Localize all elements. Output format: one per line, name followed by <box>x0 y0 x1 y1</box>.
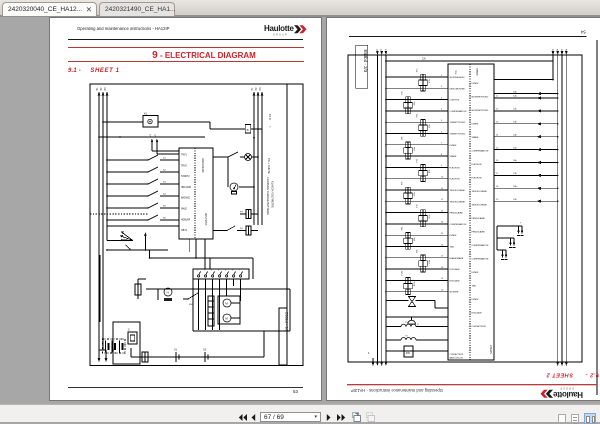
wire right row 8 <box>494 187 558 189</box>
wire <box>212 279 214 330</box>
svg-text:4: 4 <box>218 270 220 272</box>
svg-text:11: 11 <box>496 96 499 98</box>
svg-text:COUPURE CHARGE BATTERIE: COUPURE CHARGE BATTERIE <box>266 177 270 215</box>
svg-text:17: 17 <box>496 173 499 175</box>
svg-text:ETAMIN: ETAMIN <box>489 345 492 354</box>
svg-text:1: 1 <box>197 270 199 272</box>
svg-text:DVMIN: DVMIN <box>472 272 479 274</box>
svg-text:PO + CHUTE: PO + CHUTE <box>267 158 271 174</box>
wire <box>219 279 221 330</box>
svg-text:6: 6 <box>232 270 234 272</box>
sheet label E53bd-2/3 <box>356 45 368 88</box>
svg-text:SPARE: SPARE <box>472 136 480 139</box>
continuous layout icon <box>571 414 579 423</box>
relay K7b <box>419 216 427 221</box>
coil Y1 <box>386 326 401 328</box>
fuse F4b <box>406 142 410 148</box>
red rule (rotated) <box>347 384 597 385</box>
wire right bus 3 <box>561 55 563 362</box>
switch S8 <box>183 298 188 300</box>
svg-text:GB72: GB72 <box>181 230 188 232</box>
svg-text:6: 6 <box>441 131 443 133</box>
svg-text:TRV1: TRV1 <box>181 155 188 157</box>
wire mid rail <box>146 288 290 290</box>
wire <box>205 279 207 330</box>
svg-text:TMIL: TMIL <box>472 286 478 288</box>
svg-text:8: 8 <box>441 154 443 156</box>
svg-text:DVMIN: DVMIN <box>450 145 457 147</box>
wire left row 3 <box>386 99 448 101</box>
svg-text:VARIATEUR: VARIATEUR <box>201 158 205 173</box>
svg-text:14: 14 <box>441 222 444 224</box>
wire right row 6 <box>494 162 558 164</box>
svg-text:BLANKSPARE: BLANKSPARE <box>450 257 464 260</box>
wire left row 13 <box>386 212 448 214</box>
svg-text:MONTEE/TRONC: MONTEE/TRONC <box>472 97 489 99</box>
wire left bus 1 <box>98 95 100 350</box>
svg-text:K5b: K5b <box>429 169 431 173</box>
footer rule + page number <box>68 387 303 388</box>
terminal arrows T1 <box>497 225 522 227</box>
svg-text:S4: S4 <box>163 194 166 196</box>
fuse F2b <box>406 97 410 103</box>
svg-text:P2: P2 <box>255 87 258 91</box>
relay K6b <box>404 193 412 198</box>
wire tie2 <box>494 79 553 81</box>
svg-text:DVMIN: DVMIN <box>472 124 479 126</box>
node arrow up <box>144 236 146 250</box>
sheet edge line <box>596 40 598 395</box>
relay K2b <box>404 103 412 108</box>
svg-text:C6b: C6b <box>513 160 518 162</box>
wire left row 6 <box>386 133 448 135</box>
Haulotte logo <box>264 24 306 36</box>
wire left bus 1 <box>376 55 378 362</box>
wire left row 10 <box>386 178 448 180</box>
svg-text:S6: S6 <box>163 218 166 220</box>
svg-text:MONTEE: MONTEE <box>450 292 460 294</box>
buzzer row <box>386 316 448 318</box>
wire <box>130 348 132 357</box>
wire bottom rail 1 <box>107 249 168 251</box>
single page layout icon <box>558 414 566 423</box>
svg-text:F4b: F4b <box>402 135 404 139</box>
svg-text:1: 1 <box>368 351 370 355</box>
svg-text:DESC/MONTEE: DESC/MONTEE <box>450 88 466 90</box>
wire right bus 1 <box>552 55 554 61</box>
wire left row 9 <box>386 166 448 168</box>
wire <box>158 121 210 123</box>
first page button <box>238 414 247 421</box>
switch S4 <box>107 195 148 197</box>
battery bank box <box>113 322 140 364</box>
valve bowtie row <box>386 300 409 302</box>
svg-text:E53bd - 2/3: E53bd - 2/3 <box>363 50 368 73</box>
svg-text:9: 9 <box>441 165 443 167</box>
svg-text:PENDULAIRE: PENDULAIRE <box>450 212 464 215</box>
two-page layout icon (selected) <box>584 413 596 424</box>
svg-text:FLECHON: FLECHON <box>450 179 460 181</box>
svg-text:C1b: C1b <box>513 96 518 98</box>
fuse F10b <box>406 278 410 284</box>
coil Y2 <box>386 339 401 341</box>
relay K5b <box>419 170 427 175</box>
wire left row 5 <box>386 121 448 123</box>
switch S9 <box>126 245 131 250</box>
svg-text:F4: F4 <box>240 228 243 230</box>
wire <box>251 128 262 130</box>
svg-text:3: 3 <box>211 270 213 272</box>
svg-text:B: B <box>247 128 249 132</box>
svg-text:S1: S1 <box>163 158 166 160</box>
bottom toolbar <box>0 404 600 422</box>
wire dashed <box>90 213 148 215</box>
svg-text:KLAXON VOLTMETRE: KLAXON VOLTMETRE <box>271 181 275 208</box>
svg-text:4: 4 <box>441 109 443 111</box>
svg-text:>: > <box>268 126 272 128</box>
svg-text:FLECHON: FLECHON <box>472 178 482 180</box>
fuse B <box>245 125 250 133</box>
svg-text:DVMIN: DVMIN <box>472 299 479 301</box>
wire right row 4 <box>494 136 558 138</box>
svg-text:F3: F3 <box>240 212 243 214</box>
wire right bus 1 <box>253 95 255 225</box>
fuse F4 <box>246 226 251 235</box>
svg-text:3: 3 <box>441 97 443 99</box>
relay K9b <box>419 261 427 266</box>
svg-text:TRU: TRU <box>454 70 456 75</box>
svg-text:15: 15 <box>496 147 499 149</box>
next page button <box>326 414 331 421</box>
svg-text:H: H <box>167 291 169 295</box>
svg-text:19: 19 <box>496 199 499 201</box>
svg-text:DVMIN: DVMIN <box>450 235 457 237</box>
svg-text:K9b: K9b <box>429 259 431 263</box>
svg-text:P1: P1 <box>251 87 254 91</box>
svg-text:S3: S3 <box>163 182 166 184</box>
motor M1 <box>223 299 231 307</box>
svg-text:12: 12 <box>496 109 499 111</box>
svg-text:COMPENSATION: COMPENSATION <box>450 223 467 226</box>
svg-text:TELESCOPAGE: TELESCOPAGE <box>472 190 488 193</box>
svg-text:2: 2 <box>441 86 443 88</box>
svg-text:F6b: F6b <box>402 181 404 185</box>
schematic border frame <box>90 84 303 366</box>
wire left row 11 <box>386 189 448 191</box>
svg-text:C5b: C5b <box>513 147 518 149</box>
svg-text:Q: Q <box>417 324 419 326</box>
svg-text:F10b: F10b <box>402 270 404 275</box>
svg-text:F1b: F1b <box>417 68 419 72</box>
svg-text:V1: V1 <box>150 134 152 137</box>
ground arrow <box>98 350 100 358</box>
ground arrow <box>105 350 107 358</box>
svg-text:18: 18 <box>496 186 499 188</box>
fuse F5b <box>421 165 425 171</box>
svg-text:5: 5 <box>225 270 227 272</box>
svg-text:ROULAGE: ROULAGE <box>450 268 461 271</box>
svg-text:S2: S2 <box>163 170 166 172</box>
svg-text:F2b: F2b <box>402 90 404 94</box>
wire left bus 3 <box>106 95 108 228</box>
svg-text:S: S <box>128 329 130 332</box>
fuse F7b <box>421 210 425 216</box>
battery cell 1 <box>105 341 107 353</box>
last page button <box>337 414 346 421</box>
motor box <box>218 296 240 324</box>
schematic frame <box>348 55 582 362</box>
wire right row 3 <box>494 123 558 125</box>
wire <box>233 279 235 286</box>
node arrows <box>151 142 153 148</box>
svg-text:54: 54 <box>580 30 585 35</box>
svg-text:V2: V2 <box>155 134 157 137</box>
svg-text:7: 7 <box>239 270 241 272</box>
relay K3b <box>419 125 427 130</box>
svg-text:19: 19 <box>441 278 444 280</box>
switch S1 <box>107 159 148 161</box>
wire bracket <box>99 349 106 351</box>
wire left row 15 <box>386 234 448 236</box>
svg-text:COMPENSATION: COMPENSATION <box>450 110 467 113</box>
wire row <box>107 225 179 227</box>
wire right bus 3 <box>261 95 263 225</box>
svg-text:K3b: K3b <box>429 123 431 127</box>
svg-text:K7b: K7b <box>429 214 431 218</box>
sheet label E53bd-1/3 <box>279 308 287 365</box>
inner border line <box>286 84 288 366</box>
svg-text:16: 16 <box>441 244 444 246</box>
switch S7 <box>213 156 228 158</box>
svg-text:C8b: C8b <box>513 186 518 188</box>
fuse F6 <box>142 352 148 362</box>
svg-text:K1b: K1b <box>429 78 431 82</box>
fuse F9b <box>421 255 425 261</box>
tab 2 <box>99 2 175 16</box>
wire right row 9 <box>494 200 558 202</box>
svg-text:TELESCOPAGE: TELESCOPAGE <box>450 200 466 203</box>
svg-text:TELESCOPAGE: TELESCOPAGE <box>450 189 466 192</box>
motor M2 <box>223 314 231 322</box>
wire left row 20 <box>386 291 448 293</box>
battery G1 <box>175 352 177 362</box>
svg-text:C2b: C2b <box>513 109 518 111</box>
svg-text:12: 12 <box>441 199 444 201</box>
wire right bus 2 <box>557 55 559 362</box>
wire left row 19 <box>386 279 448 281</box>
wire right bus 4 <box>565 55 567 362</box>
svg-text:COMPENSATION: COMPENSATION <box>472 150 489 153</box>
wire <box>193 330 290 332</box>
svg-text:KM1: KM1 <box>189 304 194 306</box>
wire <box>226 279 228 296</box>
wire bus3 feed <box>106 228 108 241</box>
svg-text:K4b: K4b <box>414 146 416 150</box>
svg-text:F7b: F7b <box>417 203 419 207</box>
wire top tie <box>386 60 553 62</box>
svg-text:START2: START2 <box>181 175 190 178</box>
svg-text:ROULAGE: ROULAGE <box>472 312 483 315</box>
svg-text:DAABB: DAABB <box>476 68 479 76</box>
svg-text:K10b: K10b <box>414 281 416 287</box>
svg-text:MONTEE/TRONC: MONTEE/TRONC <box>472 110 489 112</box>
svg-text:F9b: F9b <box>417 248 419 252</box>
wire right row 2 <box>494 110 558 112</box>
svg-text:Operating and maintenance inst: Operating and maintenance instructions -… <box>351 388 443 393</box>
svg-text:SPARE: SPARE <box>450 155 458 158</box>
svg-text:15: 15 <box>441 233 444 235</box>
Haulotte logo (rotated) <box>541 387 597 399</box>
subsection 9.1 <box>68 68 120 74</box>
svg-text:20: 20 <box>441 290 444 292</box>
svg-text:DN: DN <box>406 351 410 355</box>
svg-text:S5: S5 <box>163 206 166 208</box>
forward view button (disabled) <box>365 412 375 422</box>
svg-text:CONTROL: CONTROL <box>450 100 461 102</box>
section title banner <box>68 47 304 48</box>
svg-text:9.2 - SHEET 2: 9.2 - SHEET 2 <box>546 372 599 378</box>
svg-text:7: 7 <box>441 143 443 145</box>
svg-text:CONTACTEUR: CONTACTEUR <box>450 353 464 356</box>
wire <box>68 39 303 41</box>
svg-text:MOUTRHVL: MOUTRHVL <box>204 213 206 227</box>
tab bar <box>0 0 600 17</box>
wire left bus 2 <box>381 55 383 362</box>
wire left row 8 <box>386 155 448 157</box>
left page (sheet 53) <box>50 18 321 400</box>
right page (sheet 54, rotated 180) <box>327 18 600 400</box>
svg-text:RA82: RA82 <box>181 208 187 211</box>
wire left row 4 <box>386 110 448 112</box>
svg-text:COMPENSATION: COMPENSATION <box>472 244 489 247</box>
svg-text:F8b: F8b <box>402 226 404 230</box>
fuse F3 <box>246 210 251 219</box>
wire left bus 2 <box>102 95 104 350</box>
terminal arrows T3 <box>497 249 506 251</box>
svg-text:K2b: K2b <box>414 101 416 105</box>
battery G2 <box>204 352 206 362</box>
svg-text:10: 10 <box>441 177 444 179</box>
connector strip X1 <box>193 269 249 279</box>
connector block U2 <box>448 64 494 360</box>
svg-text:PENDULAIRE: PENDULAIRE <box>472 231 486 234</box>
relay K4b <box>404 148 412 153</box>
svg-text:BADV82: BADV82 <box>181 197 191 200</box>
svg-text:C4b: C4b <box>513 134 518 136</box>
battery cell 3 <box>119 341 121 353</box>
svg-text:G2: G2 <box>203 349 207 352</box>
svg-text:DVMIN: DVMIN <box>472 83 479 85</box>
wire battery rail <box>131 356 264 358</box>
fuse F6b <box>406 187 410 193</box>
fuse F1b <box>421 74 425 80</box>
svg-text:COMPENSATION: COMPENSATION <box>472 258 489 261</box>
gauge P <box>230 183 238 191</box>
svg-text:CA: CA <box>422 57 426 61</box>
svg-text:16: 16 <box>496 160 499 162</box>
page combo box <box>260 412 321 422</box>
wire right row 5 <box>494 149 558 151</box>
svg-text:14: 14 <box>496 134 499 136</box>
fuse F5 <box>135 284 141 295</box>
svg-text:ORIENT/TRONC: ORIENT/TRONC <box>450 122 466 124</box>
svg-text:TRV2: TRV2 <box>181 165 188 167</box>
wire left row 16 <box>386 246 448 248</box>
svg-text:ROULAGE: ROULAGE <box>450 279 461 282</box>
connector block U1 <box>179 148 213 239</box>
svg-text:B1: B1 <box>96 87 99 91</box>
wire bottom rail 2 <box>150 257 253 259</box>
relay K1 <box>143 116 158 128</box>
header rule (rotated page footer) <box>349 36 587 38</box>
svg-text:C7b: C7b <box>513 173 518 175</box>
svg-text:C0b: C0b <box>513 91 518 93</box>
svg-text:ORIENT/TRONC: ORIENT/TRONC <box>450 134 466 136</box>
svg-text:B2: B2 <box>100 87 103 91</box>
prev page button <box>251 414 256 421</box>
svg-text:13: 13 <box>496 122 499 124</box>
svg-text:13: 13 <box>441 210 444 212</box>
wire right row 7 <box>494 174 558 176</box>
terminal arrows T2 <box>497 237 514 239</box>
switch S6 <box>107 219 148 221</box>
switch S5 <box>107 207 148 209</box>
svg-text:K8b: K8b <box>414 236 416 240</box>
svg-text:CONTACTEUR: CONTACTEUR <box>472 325 487 328</box>
svg-text:F5b: F5b <box>417 158 419 162</box>
svg-text:T: T <box>520 223 522 225</box>
fuse F8b <box>406 232 410 238</box>
switch S2 <box>107 171 148 173</box>
svg-text:HDBLRF: HDBLRF <box>181 219 191 221</box>
svg-text:PENDULAIRE: PENDULAIRE <box>472 217 486 220</box>
relay K8b <box>404 238 412 243</box>
svg-text:C3b: C3b <box>513 122 518 124</box>
wire <box>198 279 200 330</box>
wire left row 12 <box>386 200 448 202</box>
header text <box>77 27 169 31</box>
horn H1 <box>164 288 172 296</box>
svg-text:18: 18 <box>441 267 444 269</box>
fuse DN <box>386 350 404 352</box>
wire left row 1 <box>386 76 448 78</box>
wire right row 1 <box>494 97 558 99</box>
selector switch SA1 <box>121 232 133 241</box>
svg-text:MONTEE/DESC: MONTEE/DESC <box>450 77 466 79</box>
wire left row 2 <box>386 87 448 89</box>
svg-text:F3b: F3b <box>417 113 419 117</box>
svg-text:HRLCRM: HRLCRM <box>181 187 191 189</box>
svg-text:MAIN CIRCUIT: MAIN CIRCUIT <box>450 357 464 360</box>
wire <box>240 279 242 301</box>
svg-text:M: M <box>225 317 228 321</box>
wire block drops <box>188 239 190 252</box>
relay K1b <box>419 80 427 85</box>
svg-text:P1 D: P1 D <box>268 114 272 120</box>
wire right bus 2 <box>257 95 259 225</box>
wire left row 17 <box>386 257 448 259</box>
svg-text:11: 11 <box>441 188 444 190</box>
svg-text:2: 2 <box>204 270 206 272</box>
lamp H2 <box>245 154 252 161</box>
svg-text:M: M <box>225 302 228 306</box>
wire left row 7 <box>386 144 448 146</box>
svg-text:17: 17 <box>441 256 444 258</box>
wire row B <box>99 136 205 138</box>
wire <box>252 156 259 158</box>
svg-text:5: 5 <box>441 120 443 122</box>
svg-text:B3: B3 <box>104 87 107 91</box>
